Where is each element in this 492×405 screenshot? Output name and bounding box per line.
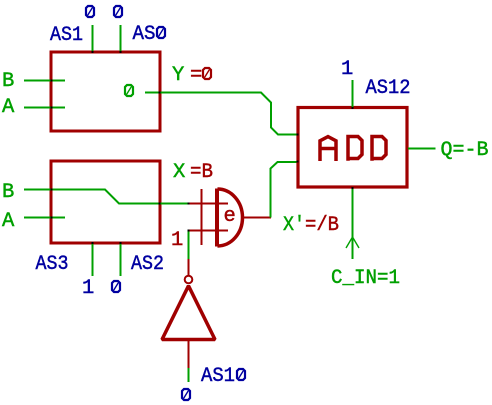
- wire A into M1: [24, 107, 65, 109]
- wire inverter input: [188, 368, 190, 382]
- svg-text:AS: AS: [133, 23, 156, 46]
- inverter U2 input pin: [188, 341, 190, 368]
- value 0 on M1 output: [125, 85, 133, 96]
- mux M1 (top select box AS1/AS0): [51, 52, 160, 131]
- label Y=0: [172, 64, 211, 87]
- xor upper input pin: [189, 203, 229, 205]
- svg-text:1: 1: [341, 58, 353, 81]
- label X=B: [173, 161, 213, 184]
- inverter U2 bubble: [185, 276, 193, 284]
- inverter U2 triangle: [162, 286, 215, 340]
- wire B through M2 to XOR upper input: [24, 190, 188, 204]
- letter A of ADD: [318, 137, 337, 161]
- junction dot AS0 stub: [120, 51, 122, 53]
- svg-text:=B: =B: [190, 161, 213, 184]
- svg-text:A: A: [2, 96, 15, 119]
- xor lower input pin: [189, 230, 229, 232]
- junction dot AS2 stub: [120, 242, 122, 244]
- svg-text:Y: Y: [172, 64, 184, 87]
- adder ADD letters: [318, 135, 386, 161]
- junction dot XOR lower pin corner: [188, 230, 190, 232]
- junction dot XOR upper pin: [188, 203, 190, 205]
- junction dot ADD top: [352, 107, 354, 109]
- wire A into M2: [24, 217, 65, 219]
- svg-text:X: X: [173, 161, 185, 184]
- letter D1 of ADD: [348, 135, 362, 161]
- select value 0 on AS1: [86, 6, 94, 17]
- junction dot AS1 stub: [92, 51, 94, 53]
- xor extra input bar: [201, 189, 203, 245]
- svg-text:C_IN=1: C_IN=1: [331, 267, 400, 290]
- junction dot X exit M2: [159, 203, 161, 205]
- junction dot B/M2 edge: [51, 189, 53, 191]
- junction dot A/M2 edge: [51, 217, 53, 219]
- svg-text:B: B: [2, 181, 14, 204]
- wire XOR output to ADD input B: [271, 162, 298, 218]
- svg-text:=/B: =/B: [305, 214, 339, 237]
- label X'=/B: [283, 214, 339, 237]
- xor output pin: [242, 217, 271, 219]
- junction dot ADD left A: [297, 134, 299, 136]
- label AS10: [201, 365, 245, 388]
- xor back bar: [215, 189, 219, 247]
- svg-text:B: B: [2, 70, 14, 93]
- xor gate U1 "e": [189, 189, 272, 247]
- svg-text:A: A: [2, 210, 15, 233]
- select value 0 on AS2: [112, 281, 120, 292]
- wire AS12 select stub: [352, 80, 354, 107]
- value 0 on inverter input: [182, 389, 190, 400]
- wire AS0 select stub: [120, 25, 122, 51]
- wire AS1 select stub: [92, 25, 94, 51]
- svg-text:1: 1: [82, 277, 94, 300]
- svg-text:AS3: AS3: [36, 253, 69, 276]
- adder ADD box: [298, 108, 407, 188]
- svg-text:=: =: [190, 64, 202, 87]
- wire XOR lower input down to inverter: [188, 231, 190, 260]
- letter D2 of ADD: [372, 135, 386, 161]
- select value 0 on AS0: [114, 6, 122, 17]
- junction dot A/M1 edge: [51, 107, 53, 109]
- label AS0: [133, 23, 166, 46]
- svg-text:AS1: AS1: [201, 365, 235, 388]
- junction dot AS3 stub: [92, 242, 94, 244]
- wire Y: M1 output to ADD input A: [145, 93, 297, 135]
- wire AS2 select stub: [120, 244, 122, 276]
- svg-text:e: e: [224, 205, 236, 228]
- junction dot ADD bottom: [352, 187, 354, 189]
- xor body arc: [218, 189, 243, 246]
- svg-text:AS1: AS1: [50, 24, 83, 47]
- wire Q output of ADD: [408, 148, 436, 150]
- inverter U2 output pin: [188, 259, 190, 275]
- svg-text:AS12: AS12: [366, 77, 411, 100]
- wire B into M1: [24, 80, 65, 82]
- wire C_IN with arrowhead into ADD: [346, 189, 359, 259]
- wire AS3 select stub: [92, 244, 94, 276]
- svg-text:Q=-B: Q=-B: [441, 139, 489, 162]
- junction dot ADD left B: [297, 161, 299, 163]
- junction dot Y exit M1: [159, 92, 161, 94]
- svg-text:X': X': [283, 214, 305, 237]
- junction dot B/M1 edge: [51, 80, 53, 82]
- svg-text:1: 1: [171, 229, 183, 252]
- mux M2 (lower select box AS3/AS2): [51, 161, 160, 243]
- svg-text:AS2: AS2: [131, 253, 164, 276]
